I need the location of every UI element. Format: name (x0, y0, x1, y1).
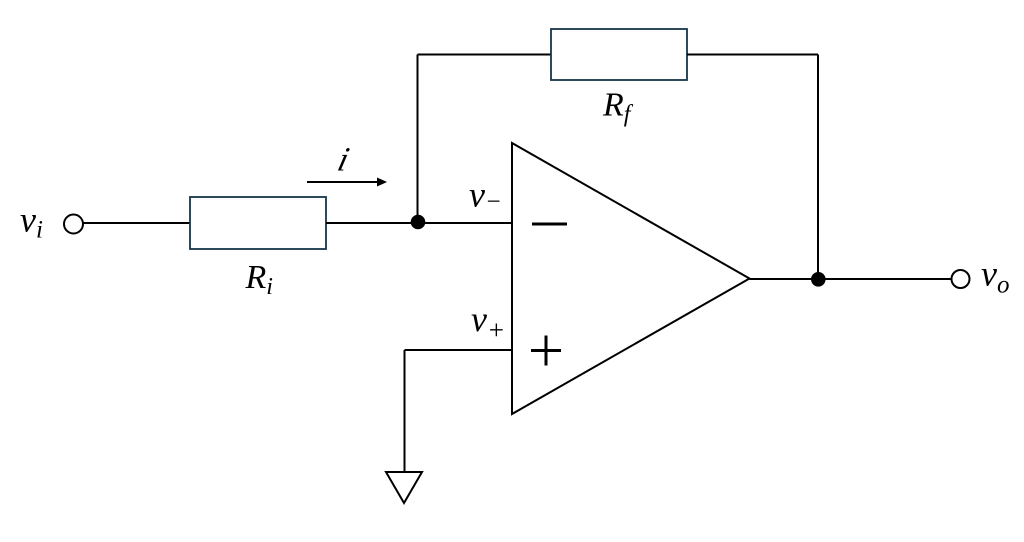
op-amp minus sign (532, 223, 567, 226)
wire node to op-amp inverting input (418, 222, 513, 224)
svg-text:vo: vo (981, 254, 1009, 299)
resistor Ri (190, 197, 326, 249)
ground (386, 472, 422, 503)
wire op-amp output (750, 278, 951, 280)
input terminal v_i (64, 215, 83, 234)
svg-text:Rf: Rf (602, 87, 634, 128)
output node (811, 272, 826, 287)
wire non-inverting input (405, 349, 513, 351)
current arrow i (307, 178, 387, 187)
wire to ground (404, 350, 406, 472)
wire input to Ri (83, 222, 190, 224)
wire feedback top left (418, 54, 552, 56)
output terminal v_o (952, 270, 970, 288)
svg-text:vi: vi (20, 200, 43, 244)
svg-text:v−: v− (469, 175, 502, 216)
wire feedback top right (687, 54, 818, 56)
node junction (inverting input) (411, 215, 426, 230)
svg-text:v+: v+ (471, 299, 505, 345)
op-amp plus sign (531, 336, 561, 366)
op-amp U1 body (512, 143, 750, 414)
svg-text:Ri: Ri (245, 259, 273, 300)
wire feedback vertical left (417, 55, 419, 223)
label i (334, 141, 353, 178)
resistor Rf (551, 29, 687, 80)
wire feedback vertical right (817, 55, 819, 280)
wire Ri to node (326, 222, 418, 224)
svg-text:i: i (334, 141, 353, 178)
